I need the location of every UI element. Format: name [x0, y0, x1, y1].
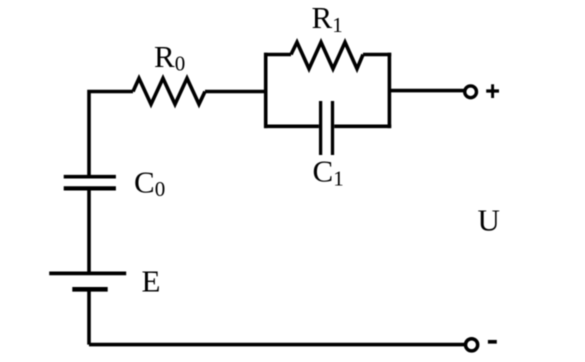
battery E long plate [49, 271, 126, 275]
wire: parallel block right vertical [388, 53, 392, 128]
capacitor C1 [319, 101, 322, 155]
wire: top branch right segment [363, 53, 391, 57]
svg-text:R1: R1 [312, 0, 343, 37]
wire: bottom branch left segment [264, 125, 319, 129]
svg-text:C0: C0 [134, 165, 165, 202]
svg-text:C1: C1 [313, 153, 344, 190]
node - terminal circle [466, 339, 478, 351]
svg-text:R0: R0 [154, 39, 185, 76]
wire: bottom rail [89, 343, 466, 347]
resistor R0 [133, 78, 205, 104]
wire: R0 to parallel block [205, 90, 264, 94]
battery E short plate [72, 287, 107, 292]
svg-text:U: U [478, 203, 500, 238]
wire: top branch left segment [264, 53, 291, 57]
svg-text:E: E [142, 264, 161, 299]
node + terminal circle [465, 86, 477, 98]
wire: output to + terminal [389, 89, 464, 93]
minus sign at - terminal [488, 340, 497, 344]
wire: bottom branch right segment [334, 125, 391, 129]
capacitor C0 [64, 175, 116, 179]
wire: C0 to battery E [87, 188, 91, 273]
wire: battery to bottom rail [87, 289, 91, 344]
wire: left vertical + top-left horizontal to R0 [89, 92, 133, 177]
wire: parallel block left vertical [264, 53, 268, 128]
resistor R1 [291, 42, 363, 69]
plus sign at + terminal [486, 89, 499, 92]
